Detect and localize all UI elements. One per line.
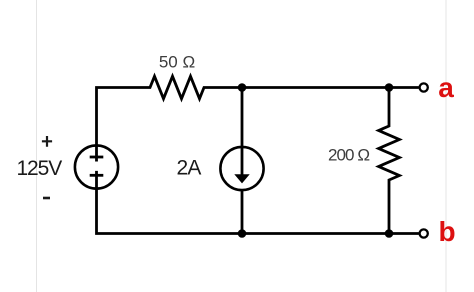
svg-text:2A: 2A: [177, 157, 202, 180]
svg-text:50 Ω: 50 Ω: [159, 53, 195, 72]
svg-text:a: a: [438, 72, 454, 103]
svg-text:200 Ω: 200 Ω: [328, 146, 369, 165]
svg-text:b: b: [438, 216, 455, 247]
svg-text:125V: 125V: [16, 157, 62, 180]
